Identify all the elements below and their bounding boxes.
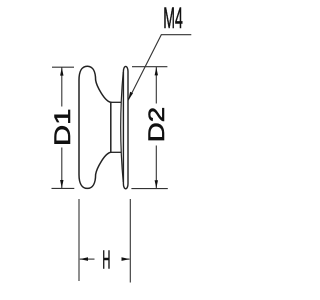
svg-text:D2: D2 [144,107,169,142]
svg-text:M4: M4 [163,2,183,35]
svg-text:H: H [102,246,110,274]
svg-text:D1: D1 [50,109,75,147]
